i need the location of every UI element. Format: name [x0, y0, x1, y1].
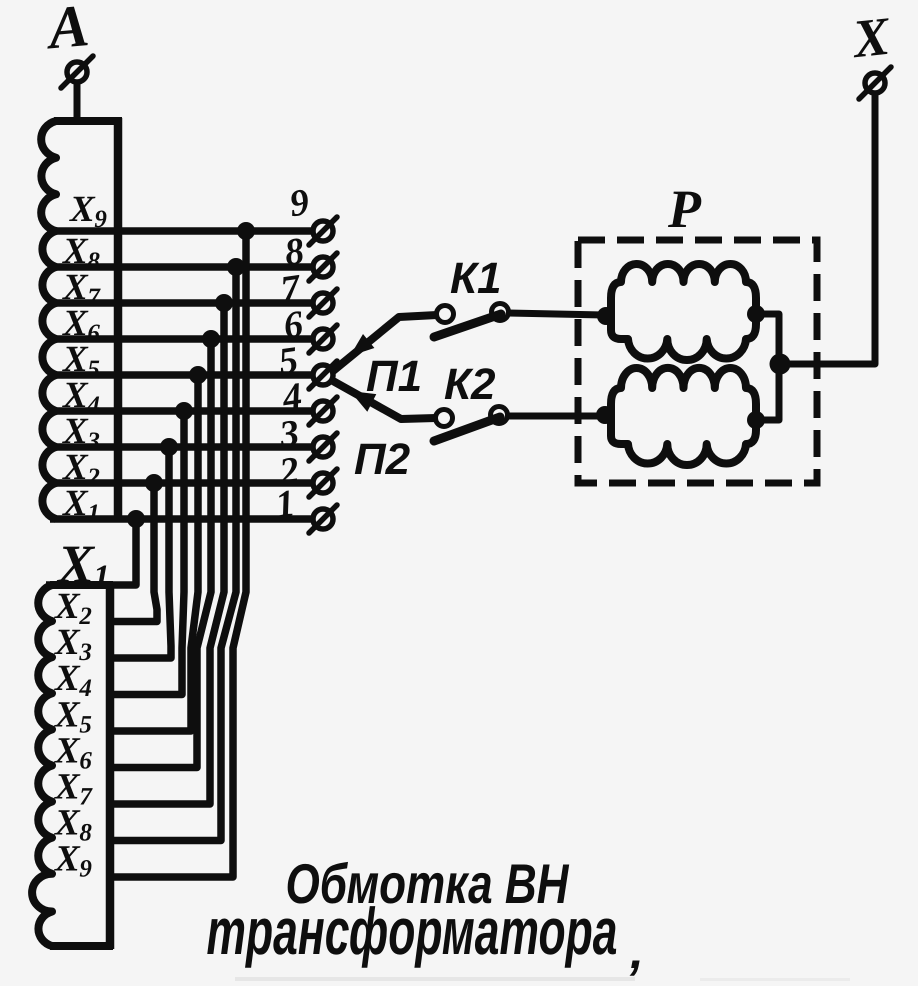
tap line to terminal 2 [50, 479, 312, 487]
selector arm wire P2 [333, 381, 436, 419]
node reactor upper right [747, 305, 765, 323]
tap line to terminal 8 [50, 263, 312, 271]
junction node terminal 8 riser [227, 258, 245, 276]
junction node terminal 2 riser [145, 474, 163, 492]
tap line to terminal 4 [50, 407, 312, 415]
svg-text:5: 5 [79, 711, 92, 738]
svg-text:2: 2 [78, 603, 92, 630]
terminal 1 bushing [313, 509, 333, 529]
svg-text:1: 1 [93, 559, 110, 596]
svg-text:Х: Х [54, 803, 81, 844]
tap line to terminal 9 [50, 227, 312, 235]
wire reactor right connector [756, 314, 779, 420]
wire K1 to reactor [508, 313, 604, 315]
caption faint underline artifact [235, 977, 635, 981]
tap riser wire X1 (lower half to terminal 1) [46, 519, 136, 585]
contact K2 left stud [436, 410, 453, 427]
terminal 8 bushing [313, 257, 333, 277]
HV winding upper half top edge [54, 117, 122, 125]
svg-text:Х: Х [54, 767, 81, 808]
svg-text:Х: Х [54, 839, 81, 880]
HV winding lower half top edge [50, 581, 113, 589]
svg-text:3: 3 [86, 428, 100, 455]
terminal X bushing [865, 73, 885, 93]
selector arm arrowhead P2 [350, 391, 376, 412]
wire A-to-winding [74, 83, 81, 124]
svg-text:Х: Х [69, 189, 96, 230]
HV winding lower half left scallops [32, 585, 52, 946]
terminal A bushing [67, 62, 87, 82]
junction node terminal 5 riser [189, 366, 207, 384]
terminal 9 bushing [313, 221, 333, 241]
svg-text:4: 4 [78, 675, 92, 702]
terminal 7 bushing [313, 293, 333, 313]
svg-text:8: 8 [87, 248, 100, 275]
svg-text:6: 6 [87, 320, 100, 347]
svg-text:5: 5 [87, 356, 100, 383]
contact K2 right stud [491, 407, 508, 424]
HV winding lower half right edge [106, 582, 115, 949]
tap riser wire X4 (lower half to terminal 4) [106, 411, 184, 695]
junction node terminal 3 riser [160, 438, 178, 456]
tap line to terminal 6 [50, 335, 312, 343]
svg-text:2: 2 [86, 464, 100, 491]
junction node terminal 6 riser [202, 330, 220, 348]
reactor coil upper [611, 264, 756, 360]
svg-text:П1: П1 [366, 352, 422, 401]
svg-text:7: 7 [87, 284, 101, 311]
svg-text:Р: Р [667, 179, 702, 239]
junction node terminal 4 riser [175, 402, 193, 420]
HV winding lower half bottom edge [50, 942, 113, 950]
terminal 5 bushing [313, 365, 333, 385]
tap riser wire X6 (lower half to terminal 6) [106, 339, 211, 768]
wire reactor to X [780, 94, 875, 364]
reactor box P [578, 240, 817, 483]
svg-text:трансформатора: трансформатора [207, 894, 618, 968]
svg-text:К2: К2 [444, 360, 496, 409]
svg-text:Х: Х [54, 622, 81, 663]
tap line to terminal 7 [50, 299, 312, 307]
junction node terminal 9 riser [237, 222, 255, 240]
contact K2 blade [434, 417, 500, 441]
tap riser wire X7 (lower half to terminal 7) [106, 303, 224, 804]
svg-text:3: 3 [78, 639, 92, 666]
contact K1 left stud [437, 306, 454, 323]
svg-text:Х: Х [54, 658, 81, 699]
tap riser wire X8 (lower half to terminal 8) [106, 267, 236, 841]
tap line to terminal 1 [50, 515, 312, 523]
svg-text:П2: П2 [354, 435, 411, 484]
HV winding upper half left scallops [41, 121, 56, 519]
svg-text:Х: Х [54, 694, 81, 735]
tap riser wire X3 (lower half to terminal 3) [106, 447, 171, 658]
svg-text:4: 4 [86, 392, 100, 419]
terminal 4 bushing [313, 401, 333, 421]
terminal 6 bushing [313, 329, 333, 349]
node reactor lower left [596, 406, 614, 424]
wire K2 to reactor [507, 413, 604, 420]
svg-text:8: 8 [79, 820, 92, 847]
svg-text:6: 6 [79, 747, 92, 774]
svg-text:К1: К1 [450, 254, 502, 303]
svg-text:9: 9 [79, 856, 92, 883]
contact K1 blade [434, 314, 501, 337]
junction node terminal 7 riser [215, 294, 233, 312]
terminal 2 bushing [313, 473, 333, 493]
tap riser wire X9 (lower half to terminal 9) [106, 231, 246, 877]
reactor coil lower [611, 368, 756, 465]
svg-text:,: , [629, 923, 644, 979]
junction node terminal 1 riser [127, 510, 145, 528]
selector arm wire P1 [333, 315, 437, 371]
node reactor lower right [747, 411, 765, 429]
selector arm arrowhead P1 [350, 334, 374, 356]
HV winding upper half right edge [114, 118, 123, 522]
tap riser wire X2 (lower half to terminal 2) [106, 483, 157, 622]
tap line to terminal 3 [50, 443, 312, 451]
node reactor upper left [597, 307, 615, 325]
tap riser wire X5 (lower half to terminal 5) [106, 375, 198, 731]
tap line to terminal 5 [50, 371, 312, 379]
svg-text:Х: Х [54, 730, 81, 771]
contact K1 right stud [492, 304, 509, 321]
node reactor midpoint [770, 354, 791, 375]
terminal 3 bushing [313, 437, 333, 457]
svg-text:1: 1 [87, 500, 100, 527]
svg-text:7: 7 [79, 784, 93, 811]
